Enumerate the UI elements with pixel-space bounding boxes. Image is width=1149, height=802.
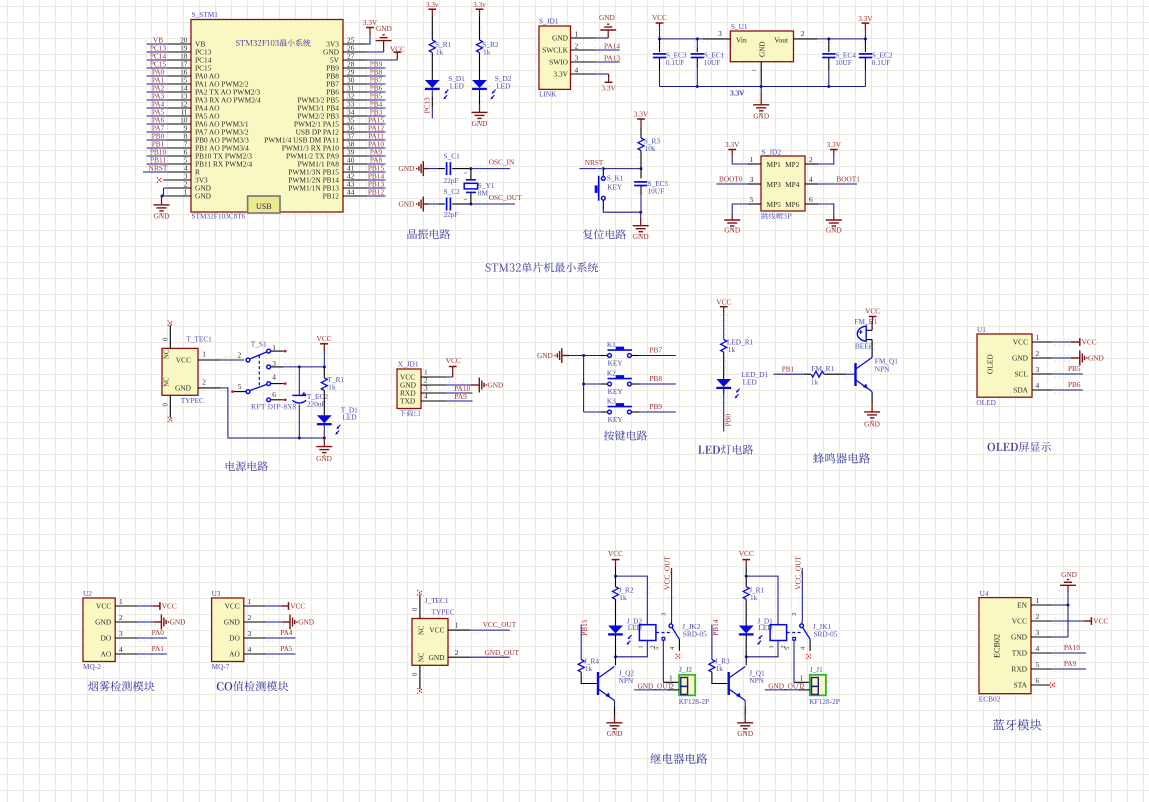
svg-text:GND: GND [316,454,332,463]
ground reset circuit [633,212,649,241]
svg-text:T_S1: T_S1 [251,339,267,348]
svg-text:2: 2 [575,41,579,50]
OLED pin4 net PB6 [1013,380,1083,395]
svg-text:X_JD1: X_JD1 [398,360,419,369]
svg-text:GND: GND [737,729,753,738]
svg-text:1k: 1k [483,48,491,57]
wire key common vertical [582,354,585,412]
connector X_JD1 body [397,360,421,417]
MCU pin 25 3V3 to 3.3V power [326,18,378,48]
wire coil branch bottom J_JK2 [616,641,648,657]
S_JD2 pin6 to ground [805,201,842,235]
caption power circuit [226,461,268,471]
caption reset circuit [583,229,626,239]
wire bottom rail regulator [660,85,866,97]
wire J_R4 to base [581,672,597,683]
svg-text:GND: GND [170,618,186,627]
transistor J_Q1 NPN [728,667,766,701]
wire key/cap to ground [603,209,642,214]
capacitor S_C2 22pF [439,187,461,219]
svg-text:MP3: MP3 [767,180,782,189]
U3 pin1 VCC [225,597,306,611]
svg-text:S_K1: S_K1 [607,174,624,183]
svg-text:GND: GND [1061,570,1077,579]
svg-text:VCC: VCC [290,602,305,611]
svg-text:VCC: VCC [608,549,623,558]
svg-text:MP6: MP6 [785,200,800,209]
svg-text:GND: GND [154,211,170,220]
S_JD2 row MP3 MP4 pin names [750,175,813,189]
caption MCU minimal system [486,262,599,272]
svg-text:GND: GND [224,618,241,627]
svg-text:LED: LED [743,378,757,387]
MCU pin 18 PC14 / net PC14 [146,51,212,64]
MCU pin 1 GND wire [161,187,212,200]
transistor FM_Q1 NPN [854,356,898,391]
resistor J_R4 1k (base) [578,657,599,674]
svg-text:VCC_OUT: VCC_OUT [663,556,672,590]
svg-text:10k: 10k [645,144,656,153]
MCU pin 29 PB8 [326,67,385,80]
resistor LED_R1 1k [721,338,754,355]
X_JD1 pin2 to ground [421,375,503,392]
wire / net OSC_IN [456,158,515,173]
wire J_D1 to node [745,634,748,658]
svg-text:8M: 8M [478,189,489,198]
svg-text:PB8: PB8 [649,374,662,383]
U4 pin5 RXD net PA9 [1011,659,1086,674]
svg-text:VCC: VCC [96,602,111,611]
ground below regulator [753,87,769,121]
svg-text:2: 2 [809,155,813,164]
svg-text:NPN: NPN [875,364,890,373]
svg-text:2: 2 [202,378,206,387]
svg-text:VCC: VCC [1012,617,1027,626]
MCU pin 36 PA12 [296,123,386,136]
svg-text:3: 3 [1036,628,1040,637]
svg-text:GND: GND [95,618,112,627]
power VCC buzzer [865,307,880,331]
wire J_R3 to base [712,672,728,683]
caption OLED display [988,442,1051,452]
svg-text:4: 4 [1036,644,1040,653]
svg-text:K2: K2 [607,368,616,377]
LED J_D1 [739,617,773,645]
capacitor S_EC1 10UF [691,39,725,87]
S_U1 pin 3 Vin [703,29,731,42]
svg-text:NPN: NPN [619,676,634,685]
MCU pin 32 PB5 [297,91,385,104]
power VCC input [652,13,667,39]
svg-text:AO: AO [229,650,240,659]
wire J_D2 to node [614,634,617,658]
svg-text:GND: GND [298,618,314,627]
svg-text:3: 3 [718,29,722,38]
wire below LED_D1 net PB0 [720,388,732,432]
crystal S_Y1 8M [464,169,495,204]
capacitor S_EC2 0.1UF [859,39,893,87]
X_JD1 pin1 to VCC [421,356,461,381]
svg-text:4: 4 [809,175,813,184]
wire / net OSC_OUT [456,193,522,208]
J_TEC1 top pin 0 no-connect [412,590,423,618]
MCU pin 10 PA6 AO PWM3/1 / net PA6 [146,115,249,128]
svg-text:SRD-05: SRD-05 [814,630,838,639]
LED J_D2 [608,617,642,645]
svg-text:1: 1 [455,620,459,629]
svg-text:MQ-7: MQ-7 [212,662,230,671]
MCU pin 3 3V3 no-connect [157,171,208,184]
svg-text:220uF: 220uF [307,400,326,409]
S_JD2 pin5 to ground [724,201,761,235]
svg-text:Vin: Vin [736,36,747,45]
svg-text:GND_OUT: GND_OUT [485,648,520,657]
svg-text:MP2: MP2 [785,160,800,169]
svg-text:3: 3 [119,629,123,638]
resistor S_R3 10k [638,137,660,154]
svg-text:VCC: VCC [739,549,754,558]
svg-text:LED: LED [342,412,356,421]
wire J_R1 to J_D1 [743,599,749,625]
svg-text:OSC_IN: OSC_IN [489,158,515,167]
svg-text:LED: LED [450,81,464,90]
MCU pin 44 PB12 [323,187,386,200]
svg-text:GND: GND [826,226,842,235]
svg-text:PB12: PB12 [323,192,340,201]
MCU pin 27 5V to VCC [330,44,405,64]
svg-text:GND: GND [428,653,445,662]
U2 pin3 DO [101,628,167,643]
svg-text:PC13: PC13 [423,97,432,114]
U3 pin4 AO [229,644,295,659]
wire S_R2 to S_D2 [479,53,481,80]
svg-text:1k: 1k [716,664,724,673]
svg-text:0: 0 [162,337,169,341]
svg-text:22pF: 22pF [444,176,459,185]
svg-text:LINK: LINK [539,90,557,99]
svg-text:STM32F103C8T6: STM32F103C8T6 [192,211,246,220]
svg-text:2: 2 [670,681,674,690]
ground sym below MCU pins 1-2 [154,197,170,220]
wire LED_R1 to LED_D1 [720,352,726,379]
J_TEC1 bottom pin 0 no-connect [412,665,423,693]
svg-text:S_STM1: S_STM1 [192,10,219,19]
MCU pin 42 PB14 [288,171,385,184]
svg-text:3: 3 [791,613,798,616]
svg-text:S_JD1: S_JD1 [539,17,559,26]
MCU pin 8 PB0 AO PWM3/3 / net PB0 [146,131,250,144]
caption key circuit [604,430,647,440]
connector J_J1 KF128-2P body [809,665,839,706]
wire J_J2 pin2 net GND_OUT [634,681,679,693]
T_TEC1 top pin 0 no-connect [162,321,173,349]
svg-text:USB: USB [256,202,272,211]
svg-text:3.3V: 3.3V [725,140,740,149]
resistor S_R2 1k [476,27,499,57]
MCU pin 11 PA5 AO / net PA5 [146,107,221,120]
power 3.3V output [858,14,873,39]
wire emitter J_Q2 to ground [607,701,623,738]
svg-text:GND: GND [1011,633,1028,642]
svg-text:PA0: PA0 [152,628,165,637]
caption crystal circuit [408,229,451,239]
svg-text:3.3V: 3.3V [634,110,649,119]
U4 pin2 VCC [1012,612,1109,626]
svg-text:0.1UF: 0.1UF [872,58,890,67]
U4 pin3 GND [1011,605,1068,642]
wire FM_R1 to FM_Q1 base [824,371,855,378]
svg-text:1k: 1k [728,345,736,354]
svg-text:MP5: MP5 [767,200,782,209]
S_JD2 pin4 net BOOT1 [805,174,860,187]
J_TEC1 pin2 net GND_OUT [448,648,519,661]
svg-text:AO: AO [101,650,112,659]
wire J_J1 pin2 net GND_OUT [765,681,810,693]
relay J_JK1 switch common / net VCC_OUT [791,556,838,640]
U3 pin2 GND [224,613,314,630]
svg-text:MP1: MP1 [767,160,782,169]
svg-text:0: 0 [412,672,419,676]
svg-text:U4: U4 [980,589,989,598]
svg-text:MP4: MP4 [785,180,800,189]
svg-text:0: 0 [162,403,169,407]
MCU pin 41 PB15 [288,163,385,176]
caption bluetooth module [993,719,1041,730]
svg-text:U1: U1 [977,325,986,334]
svg-text:1: 1 [638,645,645,648]
svg-text:OLED: OLED [985,354,994,374]
svg-text:3.3V: 3.3V [858,14,873,23]
svg-text:GND: GND [1088,354,1104,363]
ground above bluetooth [1060,570,1077,605]
wire emitter J_Q1 to ground [737,701,753,738]
MCU pin 40 PA8 [298,155,386,168]
OLED pin3 net PB5 [1014,364,1082,379]
MCU pin 43 PB13 [288,179,385,192]
svg-text:PB11 RX PWM2/4: PB11 RX PWM2/4 [195,160,253,169]
svg-text:3.3v: 3.3v [426,0,439,9]
svg-text:Vout: Vout [774,36,789,45]
buzzer FM_B1 BEEP [854,317,877,350]
MCU pin 7 PB1 AO PWM3/4 / net PB1 [146,139,250,152]
wire T_D1 to rail [323,425,325,438]
transistor J_Q2 NPN [597,667,635,701]
svg-text:GND: GND [607,729,623,738]
MCU pin 16 PA0 AO / net PA0 [146,67,221,80]
MCU pin 4 R / net NRST [143,163,200,176]
svg-text:2: 2 [1036,349,1040,358]
svg-text:PA9: PA9 [1064,659,1077,668]
power 3.3v rail for S_D1 [426,0,439,40]
svg-text:3: 3 [661,613,668,616]
ground (side) key circuit [537,348,584,363]
wire VCC rail top [658,37,703,40]
wire T_R1 to T_D1 [323,390,325,415]
svg-text:S_C1: S_C1 [444,152,461,161]
wire collector J_Q1 [745,657,747,666]
svg-text:1k: 1k [750,593,758,602]
MCU pin 12 PA4 AO / net PA4 [146,99,221,112]
svg-text:VCC: VCC [162,602,177,611]
svg-text:T_TEC1: T_TEC1 [186,335,212,344]
IC U4 ECB02 body [979,589,1031,704]
svg-text:1: 1 [202,350,206,359]
S_JD2 pin1 to 3.3V [725,140,761,167]
svg-text:3: 3 [248,629,252,638]
resistor FM_R1 1k [811,364,835,386]
svg-text:MQ-2: MQ-2 [83,662,101,671]
svg-text:VCC_OUT: VCC_OUT [793,556,802,590]
svg-text:3: 3 [575,53,579,62]
wire J_R2 to J_D2 [612,599,618,625]
S_JD2 pin2 to 3.3V [805,140,842,167]
svg-text:OSC_OUT: OSC_OUT [489,193,522,202]
resistor S_R1 1k [429,27,452,57]
svg-text:GND: GND [864,419,880,428]
resistor T_R1 1k [321,367,344,392]
svg-text:PB5: PB5 [1068,364,1081,373]
svg-text:TXD: TXD [400,397,416,406]
MCU pin 2 GND wire [164,179,212,196]
switch T_S1 KFT DIP-8X8 [231,339,296,409]
svg-text:KEY: KEY [607,183,623,192]
MCU pin 39 PA9 [286,147,385,160]
svg-text:U3: U3 [212,589,221,598]
svg-text:ECB02: ECB02 [979,695,1001,704]
svg-text:10UF: 10UF [835,58,852,67]
svg-text:FM_R1: FM_R1 [811,364,834,373]
MCU pin 33 PB4 [297,99,385,112]
svg-text:KEY: KEY [608,415,624,424]
svg-text:3.3V: 3.3V [730,88,745,97]
svg-text:J_J2: J_J2 [679,665,692,674]
U4 pin1 EN [1017,596,1069,610]
IC U2 MQ-2 body [83,589,115,671]
svg-text:S_JD2: S_JD2 [762,147,782,156]
power 3.3v rail for S_D2 [473,0,486,40]
svg-text:4: 4 [575,65,579,74]
svg-text:2: 2 [455,648,459,657]
svg-text:VCC: VCC [316,334,331,343]
svg-text:NC: NC [418,652,425,662]
ground below S_D2 [472,89,488,128]
connector T_TEC1 TYPEC body [162,335,212,405]
svg-text:GND: GND [398,200,414,209]
S_JD1 pin 4 3.3V [553,65,616,92]
svg-text:VCC: VCC [1093,617,1108,626]
T_TEC1 bottom pin 0 no-connect [162,395,173,422]
svg-text:DO: DO [229,634,240,643]
svg-text:1: 1 [750,155,754,164]
svg-text:GND: GND [376,24,392,33]
svg-text:2: 2 [248,613,252,622]
svg-text:0.1UF: 0.1UF [666,58,684,67]
svg-text:VCC: VCC [716,298,731,307]
U2 pin1 VCC [96,597,177,611]
power VCC relay J_JK2 [608,549,623,578]
wire coil branch top J_JK1 [746,576,780,624]
svg-text:5: 5 [238,382,242,391]
svg-text:3: 3 [750,175,754,184]
svg-text:10UF: 10UF [648,187,665,196]
MCU pin 9 PA7 AO PWM3/2 / net PA7 [146,123,249,136]
connector S_JD1 LINK body [539,17,571,99]
wire throw to J_J2 pin1 [663,640,679,682]
wire throw to J_J1 pin1 [794,640,810,682]
svg-text:3.3V: 3.3V [553,70,568,79]
OLED pin1 VCC [1013,333,1097,347]
svg-text:VCC: VCC [652,13,667,22]
U4 pin6 STA no-connect [1014,676,1056,690]
U2 pin4 AO [101,644,167,659]
wire S_D1 to net PC13 (rotated label) [423,89,435,118]
X_JD1 pin4 net PA9 [421,391,473,404]
svg-text:NPN: NPN [749,676,764,685]
relay J_JK1 throw contacts [784,637,811,658]
svg-text:S_C2: S_C2 [444,187,461,196]
svg-text:5: 5 [750,195,754,204]
S_JD1 pin 2 SWCLK net PA14 [542,41,620,54]
relay J_JK2 throw contacts [654,637,681,658]
relay J_JK2 switch common / net VCC_OUT [661,556,708,640]
svg-text:S_U1: S_U1 [731,22,748,31]
MCU pin 14 PA2 TX AO PWM2/3 / net PA2 [146,83,261,96]
svg-text:GND: GND [1012,354,1029,363]
svg-text:0: 0 [412,607,419,611]
MCU pin 35 PA15 [294,115,386,128]
OLED pin2 GND [1012,349,1104,366]
capacitor S_EC5 10UF [634,169,668,213]
svg-text:6: 6 [1036,676,1040,685]
power VCC of power circuit [316,334,331,367]
svg-text:PB12: PB12 [368,187,385,196]
MCU pin 13 PA3 RX AO PWM2/4 / net PA3 [146,91,261,104]
svg-text:SWIO: SWIO [549,58,569,67]
resistor J_R2 1k [613,576,634,602]
IC U? S_STM1 STM32F103 body [191,10,343,220]
S_JD2 row MP5 MP6 pin names [750,195,813,209]
svg-text:GND: GND [552,34,569,43]
svg-text:1k: 1k [585,664,593,673]
svg-text:NC: NC [163,377,170,387]
X_JD1 pin3 net PA10 [421,383,473,396]
svg-text:2: 2 [801,29,805,38]
svg-text:KF128-2P: KF128-2P [679,697,709,706]
MCU pin 6 PB10 TX PWM2/3 / net PB10 [146,147,253,160]
capacitor T_EC2 220uF [292,367,328,438]
svg-text:OLED: OLED [976,398,995,407]
svg-text:4: 4 [248,645,252,654]
U4 pin4 TXD net PA10 [1012,643,1086,658]
relay J_JK2 SRD-05 coil [638,625,673,649]
S_U1 pin 2 Vout [794,29,867,42]
svg-text:TXD: TXD [1012,649,1028,658]
svg-text:1k: 1k [619,593,627,602]
svg-text:LED: LED [496,81,510,90]
MCU pin 17 PC15 / net PC15 [146,59,212,72]
capacitor S_C1 22pF [439,152,461,186]
T_TEC1 pin1 wire to switch [198,350,244,364]
svg-text:PB9: PB9 [649,402,662,411]
svg-text:4: 4 [119,645,123,654]
svg-text:1k: 1k [811,377,819,386]
relay J_JK1 SRD-05 coil [768,625,803,649]
svg-text:PA1: PA1 [152,644,165,653]
LED S_D1 [425,74,465,100]
svg-text:VCC: VCC [225,602,240,611]
svg-text:U2: U2 [83,589,92,598]
svg-text:VCC: VCC [390,44,405,53]
